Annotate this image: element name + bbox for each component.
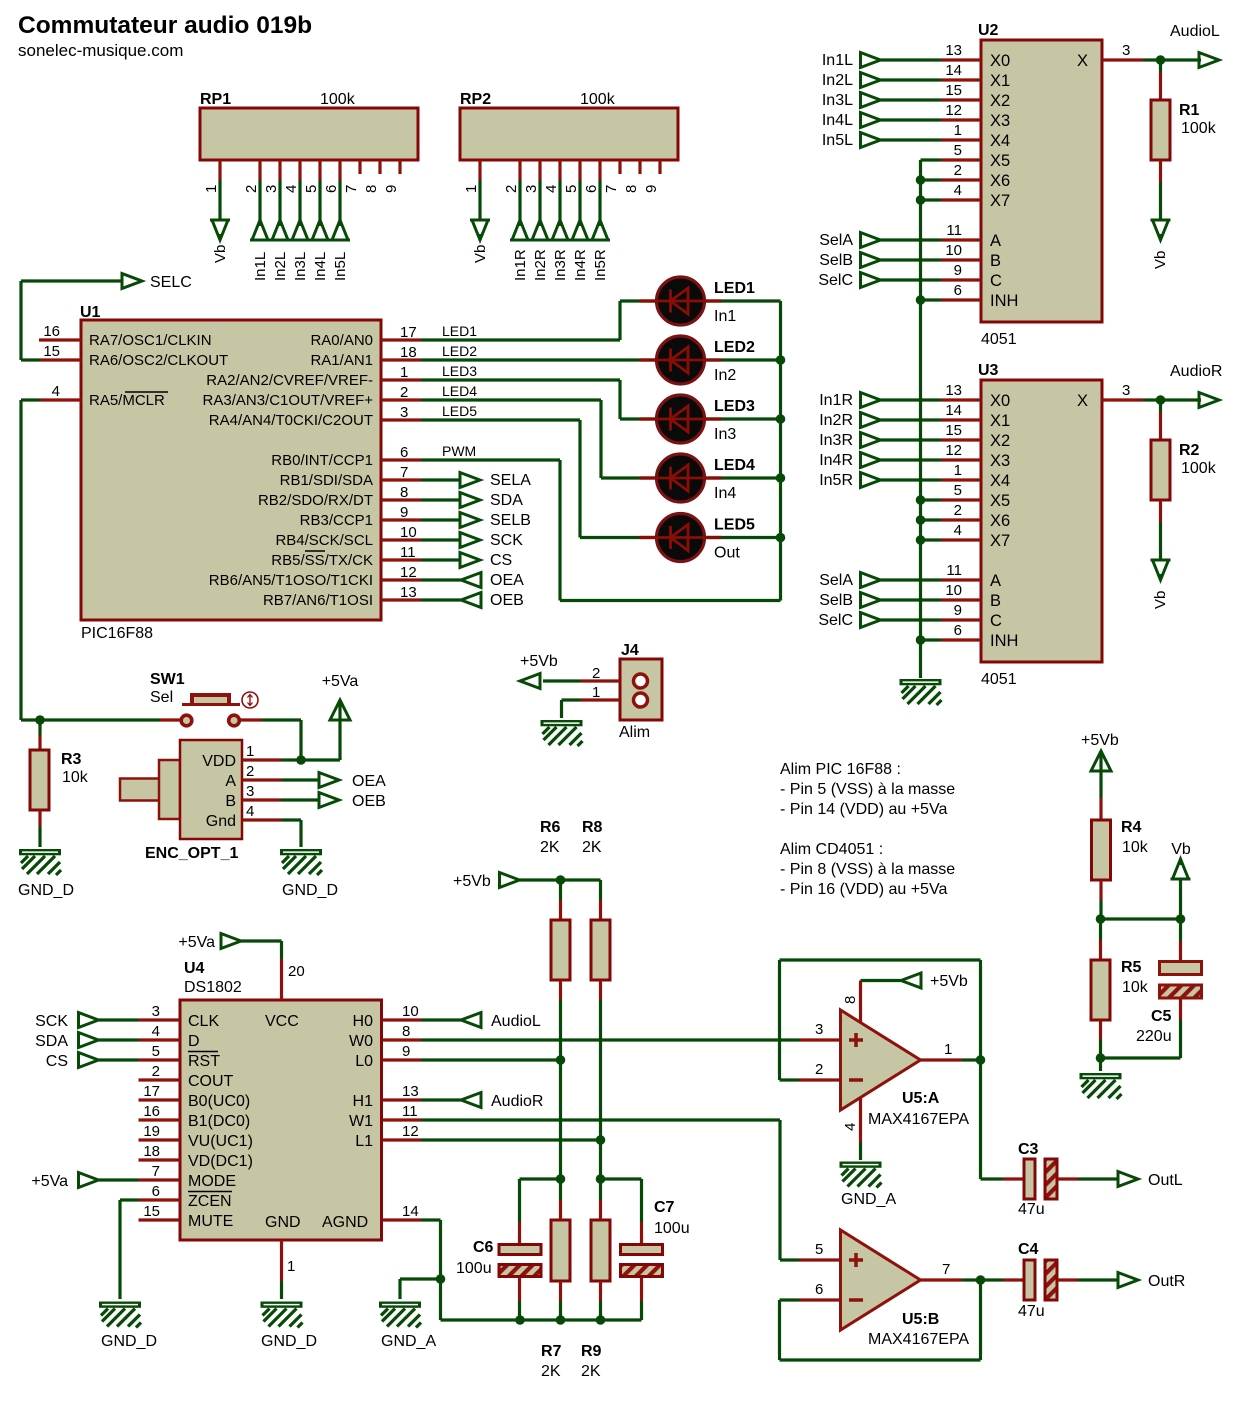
svg-text:11: 11 (946, 562, 962, 579)
svg-text:2: 2 (954, 162, 962, 179)
svg-text:SDA: SDA (35, 1033, 68, 1050)
svg-text:5: 5 (303, 185, 320, 193)
svg-text:+5Va: +5Va (31, 1173, 68, 1190)
svg-text:A: A (225, 773, 236, 790)
svg-text:DS1802: DS1802 (184, 979, 242, 996)
svg-text:13: 13 (402, 1083, 419, 1100)
svg-text:13: 13 (945, 382, 962, 399)
svg-text:7: 7 (942, 1261, 950, 1278)
svg-text:100k: 100k (320, 91, 356, 108)
svg-text:C6: C6 (473, 1239, 494, 1256)
svg-text:4: 4 (842, 1123, 859, 1131)
svg-text:2K: 2K (581, 1363, 601, 1380)
svg-text:sonelec-musique.com: sonelec-musique.com (18, 41, 183, 60)
svg-text:9: 9 (383, 185, 400, 193)
svg-text:2K: 2K (582, 839, 602, 856)
svg-text:R1: R1 (1179, 102, 1200, 119)
svg-text:RB6/AN5/T1OSO/T1CKI: RB6/AN5/T1OSO/T1CKI (209, 572, 373, 589)
svg-text:RST: RST (188, 1053, 220, 1070)
svg-text:In1: In1 (714, 308, 736, 325)
svg-text:ZCEN: ZCEN (188, 1193, 232, 1210)
svg-text:X3: X3 (990, 112, 1010, 130)
svg-text:B: B (990, 592, 1001, 610)
svg-text:R9: R9 (581, 1343, 602, 1360)
svg-text:- Pin 5 (VSS) à la masse: - Pin 5 (VSS) à la masse (780, 781, 955, 798)
svg-text:2: 2 (592, 665, 600, 682)
svg-text:C4: C4 (1018, 1241, 1039, 1258)
svg-text:In3R: In3R (819, 432, 853, 449)
svg-text:9: 9 (402, 1043, 410, 1060)
svg-text:LED5: LED5 (714, 517, 755, 534)
svg-text:L1: L1 (355, 1133, 373, 1150)
svg-text:U1: U1 (80, 304, 101, 321)
svg-text:X2: X2 (990, 92, 1010, 110)
svg-text:X3: X3 (990, 452, 1010, 470)
svg-text:GND_D: GND_D (282, 882, 338, 899)
svg-text:RA1/AN1: RA1/AN1 (310, 352, 373, 369)
svg-text:11: 11 (402, 1103, 418, 1120)
svg-text:X5: X5 (990, 152, 1010, 170)
svg-text:1: 1 (592, 684, 600, 701)
svg-text:VCC: VCC (265, 1013, 299, 1030)
svg-text:SELB: SELB (490, 512, 531, 529)
svg-text:SelA: SelA (819, 572, 853, 589)
svg-text:U5:B: U5:B (902, 1311, 939, 1328)
svg-text:X: X (1077, 52, 1088, 70)
svg-text:RA6/OSC2/CLKOUT: RA6/OSC2/CLKOUT (89, 352, 228, 369)
svg-text:SELA: SELA (490, 472, 531, 489)
svg-text:VU(UC1): VU(UC1) (188, 1133, 253, 1150)
svg-text:15: 15 (143, 1203, 160, 1220)
svg-text:RA7/OSC1/CLKIN: RA7/OSC1/CLKIN (89, 332, 212, 349)
svg-text:Vb: Vb (1171, 841, 1191, 858)
svg-text:OEA: OEA (490, 572, 524, 589)
svg-text:In4: In4 (714, 485, 736, 502)
svg-text:ENC_OPT_1: ENC_OPT_1 (145, 845, 238, 862)
svg-text:3: 3 (152, 1003, 160, 1020)
svg-text:LED3: LED3 (442, 363, 477, 379)
svg-text:RB7/AN6/T1OSI: RB7/AN6/T1OSI (263, 592, 373, 609)
svg-text:12: 12 (402, 1123, 419, 1140)
svg-text:RP1: RP1 (200, 91, 231, 108)
svg-text:100k: 100k (1181, 460, 1217, 477)
svg-text:LED5: LED5 (442, 403, 477, 419)
svg-text:PIC16F88: PIC16F88 (81, 625, 153, 642)
svg-text:X1: X1 (990, 72, 1010, 90)
svg-text:OEA: OEA (352, 773, 386, 790)
svg-text:B0(UC0): B0(UC0) (188, 1093, 250, 1110)
svg-text:Alim: Alim (619, 724, 650, 741)
svg-text:OutR: OutR (1148, 1273, 1185, 1290)
svg-text:12: 12 (945, 442, 962, 459)
svg-text:R4: R4 (1121, 819, 1142, 836)
svg-text:15: 15 (43, 343, 60, 360)
svg-text:10k: 10k (1122, 979, 1149, 996)
svg-text:1: 1 (463, 185, 480, 193)
svg-text:17: 17 (400, 324, 417, 341)
svg-text:INH: INH (990, 292, 1018, 310)
svg-text:SelC: SelC (818, 272, 853, 289)
svg-text:LED1: LED1 (442, 323, 477, 339)
svg-text:X4: X4 (990, 472, 1010, 490)
svg-text:7: 7 (603, 185, 620, 193)
svg-text:SCK: SCK (35, 1013, 68, 1030)
svg-text:5: 5 (563, 185, 580, 193)
svg-text:11: 11 (400, 544, 416, 561)
svg-text:3: 3 (815, 1021, 823, 1038)
svg-text:6: 6 (954, 622, 962, 639)
svg-text:RA5/MCLR: RA5/MCLR (89, 392, 165, 409)
svg-text:In2R: In2R (532, 249, 549, 281)
svg-text:100u: 100u (456, 1260, 492, 1277)
svg-text:3: 3 (1122, 382, 1130, 399)
svg-text:In4R: In4R (819, 452, 853, 469)
svg-text:J4: J4 (621, 642, 639, 659)
svg-text:X4: X4 (990, 132, 1010, 150)
svg-text:C7: C7 (654, 1199, 675, 1216)
svg-text:2: 2 (815, 1061, 823, 1078)
svg-text:X7: X7 (990, 532, 1010, 550)
svg-text:10: 10 (945, 242, 962, 259)
svg-text:W1: W1 (349, 1113, 373, 1130)
svg-text:2: 2 (400, 384, 408, 401)
svg-text:B: B (225, 793, 236, 810)
svg-text:MAX4167EPA: MAX4167EPA (868, 1331, 969, 1348)
svg-text:SelB: SelB (819, 592, 853, 609)
svg-text:MODE: MODE (188, 1173, 236, 1190)
svg-text:MUTE: MUTE (188, 1213, 233, 1230)
svg-text:CS: CS (490, 552, 512, 569)
svg-text:In1R: In1R (512, 249, 529, 281)
svg-text:SCK: SCK (490, 532, 523, 549)
svg-text:VDD: VDD (202, 753, 236, 770)
svg-text:AudioR: AudioR (491, 1093, 543, 1110)
svg-text:C3: C3 (1018, 1141, 1039, 1158)
svg-text:SelB: SelB (819, 252, 853, 269)
svg-text:OEB: OEB (490, 592, 524, 609)
svg-text:OutL: OutL (1148, 1172, 1183, 1189)
svg-text:H1: H1 (353, 1093, 374, 1110)
svg-text:1: 1 (944, 1041, 952, 1058)
svg-text:X5: X5 (990, 492, 1010, 510)
svg-text:RA0/AN0: RA0/AN0 (310, 332, 373, 349)
svg-text:R5: R5 (1121, 959, 1142, 976)
svg-text:14: 14 (945, 402, 962, 419)
svg-text:6: 6 (323, 185, 340, 193)
svg-text:LED2: LED2 (714, 339, 755, 356)
svg-text:Vb: Vb (212, 245, 229, 263)
svg-text:SelC: SelC (818, 612, 853, 629)
svg-text:AudioR: AudioR (1170, 363, 1222, 380)
svg-text:X1: X1 (990, 412, 1010, 430)
svg-text:9: 9 (954, 602, 962, 619)
svg-text:10: 10 (945, 582, 962, 599)
svg-text:AudioL: AudioL (491, 1013, 541, 1030)
svg-text:RB5/SS/TX/CK: RB5/SS/TX/CK (271, 552, 373, 569)
svg-text:GND_A: GND_A (381, 1333, 436, 1350)
svg-text:1: 1 (400, 364, 408, 381)
svg-text:VD(DC1): VD(DC1) (188, 1153, 253, 1170)
svg-text:4: 4 (283, 185, 300, 193)
svg-text:- Pin 8 (VSS) à la masse: - Pin 8 (VSS) à la masse (780, 861, 955, 878)
svg-text:19: 19 (143, 1123, 160, 1140)
svg-text:In5L: In5L (822, 132, 853, 149)
svg-text:Gnd: Gnd (206, 813, 236, 830)
svg-text:8: 8 (363, 185, 380, 193)
svg-text:14: 14 (402, 1203, 419, 1220)
svg-text:LED4: LED4 (442, 383, 477, 399)
svg-text:U4: U4 (184, 960, 205, 977)
svg-text:5: 5 (815, 1241, 823, 1258)
svg-text:12: 12 (945, 102, 962, 119)
svg-text:3: 3 (246, 783, 254, 800)
svg-text:8: 8 (842, 996, 859, 1004)
svg-text:- Pin 14 (VDD) au +5Va: - Pin 14 (VDD) au +5Va (780, 801, 947, 818)
svg-text:B: B (990, 252, 1001, 270)
svg-text:1: 1 (954, 462, 962, 479)
svg-text:2: 2 (503, 185, 520, 193)
svg-text:Commutateur audio 019b: Commutateur audio 019b (18, 12, 312, 39)
svg-text:2K: 2K (541, 1363, 561, 1380)
svg-text:A: A (990, 572, 1001, 590)
svg-text:In4R: In4R (572, 249, 589, 281)
svg-text:In2: In2 (714, 367, 736, 384)
svg-text:GND_D: GND_D (18, 882, 74, 899)
svg-text:R6: R6 (540, 819, 561, 836)
svg-text:6: 6 (954, 282, 962, 299)
svg-text:In5L: In5L (332, 252, 349, 281)
svg-text:In3L: In3L (292, 252, 309, 281)
svg-text:1: 1 (246, 743, 254, 760)
svg-text:+5Vb: +5Vb (1081, 732, 1119, 749)
svg-text:X0: X0 (990, 52, 1010, 70)
svg-text:8: 8 (400, 484, 408, 501)
svg-text:C: C (990, 612, 1002, 630)
svg-text:GND_A: GND_A (841, 1191, 896, 1208)
svg-text:In5R: In5R (592, 249, 609, 281)
svg-text:U2: U2 (978, 22, 999, 39)
svg-text:Vb: Vb (472, 245, 489, 263)
svg-text:16: 16 (143, 1103, 160, 1120)
svg-text:In3L: In3L (822, 92, 853, 109)
svg-text:X6: X6 (990, 512, 1010, 530)
svg-text:4: 4 (543, 185, 560, 193)
svg-text:Out: Out (714, 545, 740, 562)
svg-text:2: 2 (152, 1063, 160, 1080)
svg-text:Vb: Vb (1152, 591, 1169, 609)
svg-text:+5Va: +5Va (178, 934, 215, 951)
svg-text:X: X (1077, 392, 1088, 410)
svg-text:5: 5 (954, 482, 962, 499)
svg-text:RB4/SCK/SCL: RB4/SCK/SCL (275, 532, 373, 549)
svg-text:1: 1 (954, 122, 962, 139)
svg-text:Alim CD4051 :: Alim CD4051 : (780, 841, 883, 858)
svg-text:6: 6 (583, 185, 600, 193)
svg-text:PWM: PWM (442, 443, 476, 459)
svg-text:10k: 10k (1122, 839, 1149, 856)
svg-text:C: C (990, 272, 1002, 290)
svg-text:+5Vb: +5Vb (520, 653, 558, 670)
svg-text:In1R: In1R (819, 392, 853, 409)
svg-text:R7: R7 (541, 1343, 562, 1360)
svg-text:100k: 100k (580, 91, 616, 108)
svg-text:X7: X7 (990, 192, 1010, 210)
svg-text:C5: C5 (1151, 1008, 1172, 1025)
svg-text:D: D (188, 1033, 200, 1050)
svg-text:20: 20 (288, 963, 305, 980)
svg-text:R3: R3 (61, 751, 82, 768)
svg-text:OEB: OEB (352, 793, 386, 810)
svg-text:4051: 4051 (981, 671, 1017, 688)
svg-text:In1L: In1L (252, 252, 269, 281)
svg-text:LED4: LED4 (714, 457, 755, 474)
svg-text:RB0/INT/CCP1: RB0/INT/CCP1 (271, 452, 373, 469)
svg-text:5: 5 (152, 1043, 160, 1060)
svg-text:100k: 100k (1181, 120, 1217, 137)
svg-text:MAX4167EPA: MAX4167EPA (868, 1111, 969, 1128)
svg-text:GND: GND (265, 1214, 301, 1231)
svg-text:8: 8 (402, 1023, 410, 1040)
svg-text:Sel: Sel (150, 689, 173, 706)
svg-text:100u: 100u (654, 1220, 690, 1237)
svg-text:CS: CS (46, 1053, 68, 1070)
svg-text:COUT: COUT (188, 1073, 234, 1090)
svg-text:16: 16 (43, 323, 60, 340)
svg-text:L0: L0 (355, 1053, 373, 1070)
svg-text:RB3/CCP1: RB3/CCP1 (300, 512, 373, 529)
svg-text:2: 2 (954, 502, 962, 519)
svg-text:RA3/AN3/C1OUT/VREF+: RA3/AN3/C1OUT/VREF+ (203, 392, 374, 409)
svg-text:2: 2 (246, 763, 254, 780)
svg-text:3: 3 (263, 185, 280, 193)
svg-text:13: 13 (400, 584, 417, 601)
svg-text:2K: 2K (540, 839, 560, 856)
svg-text:In3: In3 (714, 426, 736, 443)
svg-text:AudioL: AudioL (1170, 23, 1220, 40)
svg-text:SDA: SDA (490, 492, 523, 509)
svg-text:RB1/SDI/SDA: RB1/SDI/SDA (280, 472, 373, 489)
svg-text:In2L: In2L (272, 252, 289, 281)
svg-text:+5Vb: +5Vb (930, 973, 968, 990)
svg-text:In4L: In4L (312, 252, 329, 281)
svg-text:15: 15 (945, 82, 962, 99)
svg-text:13: 13 (945, 42, 962, 59)
svg-text:15: 15 (945, 422, 962, 439)
svg-text:18: 18 (400, 344, 417, 361)
svg-text:X6: X6 (990, 172, 1010, 190)
svg-text:In2R: In2R (819, 412, 853, 429)
svg-text:18: 18 (143, 1143, 160, 1160)
svg-text:3: 3 (523, 185, 540, 193)
svg-text:H0: H0 (353, 1013, 374, 1030)
svg-text:5: 5 (954, 142, 962, 159)
svg-text:4: 4 (954, 522, 962, 539)
svg-text:SELC: SELC (150, 274, 192, 291)
svg-text:2: 2 (243, 185, 260, 193)
svg-text:B1(DC0): B1(DC0) (188, 1113, 250, 1130)
svg-text:10k: 10k (62, 769, 89, 786)
svg-text:14: 14 (945, 62, 962, 79)
svg-text:X2: X2 (990, 432, 1010, 450)
svg-text:RA2/AN2/CVREF/VREF-: RA2/AN2/CVREF/VREF- (206, 372, 373, 389)
svg-text:RA4/AN4/T0CKI/C2OUT: RA4/AN4/T0CKI/C2OUT (209, 412, 373, 429)
svg-text:4: 4 (152, 1023, 160, 1040)
svg-text:RP2: RP2 (460, 91, 491, 108)
svg-text:220u: 220u (1136, 1028, 1172, 1045)
svg-text:INH: INH (990, 632, 1018, 650)
svg-text:6: 6 (152, 1183, 160, 1200)
svg-text:4051: 4051 (981, 331, 1017, 348)
svg-text:In2L: In2L (822, 72, 853, 89)
svg-text:4: 4 (954, 182, 962, 199)
svg-text:U3: U3 (978, 362, 999, 379)
svg-text:In1L: In1L (822, 52, 853, 69)
svg-text:+5Vb: +5Vb (453, 873, 491, 890)
svg-text:17: 17 (143, 1083, 160, 1100)
svg-text:- Pin 16 (VDD) au +5Va: - Pin 16 (VDD) au +5Va (780, 881, 947, 898)
svg-text:U5:A: U5:A (902, 1090, 940, 1107)
svg-text:11: 11 (946, 222, 962, 239)
svg-text:9: 9 (400, 504, 408, 521)
svg-text:Vb: Vb (1152, 251, 1169, 269)
svg-text:X0: X0 (990, 392, 1010, 410)
svg-text:LED2: LED2 (442, 343, 477, 359)
svg-text:10: 10 (402, 1003, 419, 1020)
svg-text:12: 12 (400, 564, 417, 581)
svg-text:7: 7 (152, 1163, 160, 1180)
svg-text:GND_D: GND_D (101, 1333, 157, 1350)
svg-text:SW1: SW1 (150, 671, 185, 688)
svg-text:R8: R8 (582, 819, 603, 836)
svg-text:CLK: CLK (188, 1013, 219, 1030)
svg-text:6: 6 (815, 1281, 823, 1298)
svg-text:47u: 47u (1018, 1303, 1045, 1320)
svg-text:8: 8 (623, 185, 640, 193)
svg-text:7: 7 (343, 185, 360, 193)
svg-text:9: 9 (643, 185, 660, 193)
svg-text:1: 1 (203, 185, 220, 193)
svg-text:+5Va: +5Va (322, 673, 359, 690)
svg-text:9: 9 (954, 262, 962, 279)
svg-text:47u: 47u (1018, 1201, 1045, 1218)
svg-text:R2: R2 (1179, 442, 1200, 459)
svg-text:Alim PIC 16F88 :: Alim PIC 16F88 : (780, 761, 901, 778)
svg-text:4: 4 (246, 803, 254, 820)
svg-text:LED3: LED3 (714, 398, 755, 415)
svg-text:A: A (990, 232, 1001, 250)
svg-text:10: 10 (400, 524, 417, 541)
svg-text:GND_D: GND_D (261, 1333, 317, 1350)
svg-text:In3R: In3R (552, 249, 569, 281)
svg-text:In4L: In4L (822, 112, 853, 129)
svg-text:1: 1 (287, 1258, 295, 1275)
svg-text:3: 3 (1122, 42, 1130, 59)
svg-text:In5R: In5R (819, 472, 853, 489)
svg-text:7: 7 (400, 464, 408, 481)
svg-text:4: 4 (52, 383, 60, 400)
svg-text:6: 6 (400, 444, 408, 461)
svg-text:SelA: SelA (819, 232, 853, 249)
svg-text:3: 3 (400, 404, 408, 421)
svg-text:W0: W0 (349, 1033, 373, 1050)
svg-text:LED1: LED1 (714, 280, 755, 297)
svg-text:AGND: AGND (322, 1214, 368, 1231)
svg-text:RB2/SDO/RX/DT: RB2/SDO/RX/DT (258, 492, 373, 509)
